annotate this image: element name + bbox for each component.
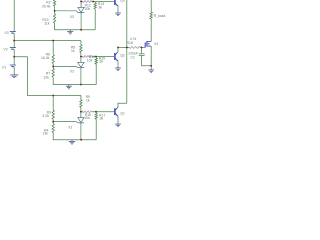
svg-text:Q3: Q3 xyxy=(120,0,125,3)
svg-text:V1: V1 xyxy=(2,65,6,69)
svg-text:X1: X1 xyxy=(68,126,72,130)
svg-text:C1: C1 xyxy=(131,56,135,60)
svg-text:V2: V2 xyxy=(3,48,7,52)
svg-text:1k: 1k xyxy=(86,98,90,102)
svg-text:4.7k: 4.7k xyxy=(130,37,137,41)
svg-text:12k: 12k xyxy=(43,75,49,79)
svg-text:3k: 3k xyxy=(100,117,104,121)
svg-text:V3: V3 xyxy=(4,31,8,35)
svg-text:10k: 10k xyxy=(87,59,93,63)
svg-text:3k: 3k xyxy=(98,5,102,9)
svg-text:3.2k: 3.2k xyxy=(42,114,49,118)
svg-text:R18: R18 xyxy=(127,41,133,45)
svg-text:Q1: Q1 xyxy=(120,112,125,116)
svg-text:1k: 1k xyxy=(71,49,75,53)
svg-text:16.4k: 16.4k xyxy=(41,56,50,60)
svg-text:X2: X2 xyxy=(70,70,74,74)
svg-text:20k: 20k xyxy=(85,7,91,11)
svg-text:10k: 10k xyxy=(84,116,90,120)
svg-text:3k: 3k xyxy=(99,60,103,64)
svg-text:X4: X4 xyxy=(154,42,158,46)
svg-text:Q2: Q2 xyxy=(120,54,125,58)
svg-text:R_load: R_load xyxy=(154,14,166,18)
svg-text:13k: 13k xyxy=(42,131,48,135)
svg-text:11k: 11k xyxy=(44,21,50,25)
svg-text:X3: X3 xyxy=(70,15,74,19)
svg-text:29.4k: 29.4k xyxy=(42,4,51,8)
